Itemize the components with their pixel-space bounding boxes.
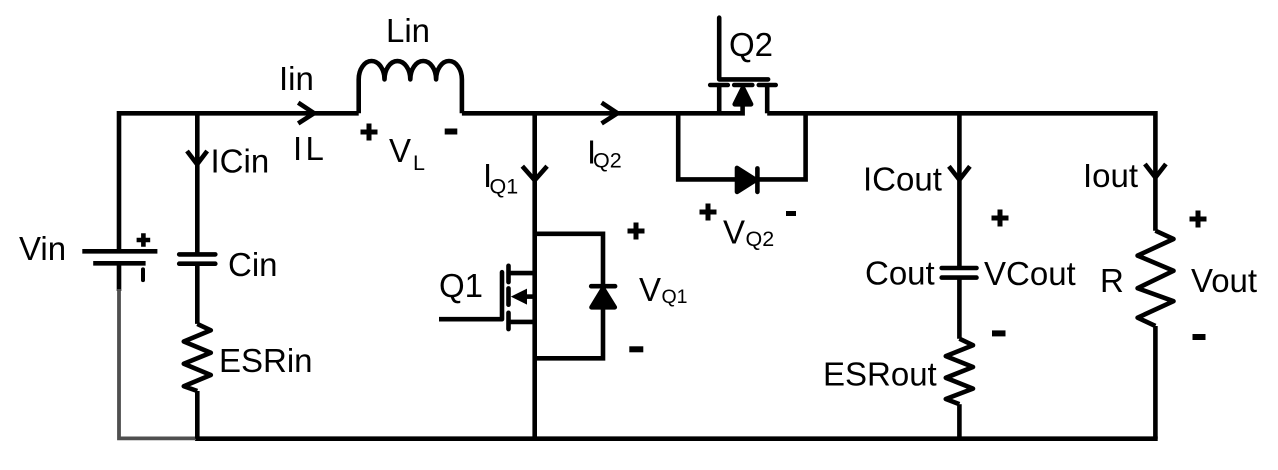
svg-text:Q2: Q2 [593, 149, 622, 173]
wire: battery negative lead [117, 263, 122, 291]
capacitor Cin plates [179, 254, 215, 263]
svg-text:ICout: ICout [863, 161, 942, 198]
plus mark VL [361, 124, 378, 141]
minus mark VCout [992, 330, 1006, 336]
wire: Q1 drain-source vertical [532, 113, 537, 438]
wire: Q1 body-diode loop [535, 234, 603, 358]
svg-text:R: R [1100, 262, 1124, 299]
transistor Q2 channel segments [710, 83, 776, 88]
svg-text:Vin: Vin [19, 230, 66, 267]
plus mark Vout [1190, 211, 1207, 228]
transistor Q1 drain stub [509, 271, 535, 276]
svg-text:Q2: Q2 [729, 26, 773, 63]
transistor Q2 source stub right [765, 85, 770, 113]
transistor Q2 drain stub left [717, 85, 722, 113]
wire: top rail left segment [119, 111, 359, 116]
wire: Q2 body-diode loop [678, 111, 805, 179]
plus mark VQ2 [700, 204, 717, 221]
wire: ESRout bottom lead [957, 404, 962, 439]
wire: Cin branch upper [195, 111, 200, 254]
svg-text:Q1: Q1 [439, 267, 483, 304]
wire: left vertical from top rail to battery [117, 111, 122, 251]
transistor Q1 gate lead [439, 317, 502, 322]
diode D2 (Q2 body) triangle [737, 168, 756, 192]
svg-text:I: I [293, 130, 302, 167]
svg-text:Iout: Iout [1083, 157, 1138, 194]
wire: top rail middle segment into Q2 source stem [462, 104, 743, 114]
transistor Q1 source stub [509, 320, 535, 325]
capacitor Cout plates [942, 268, 977, 278]
svg-text:Iin: Iin [279, 60, 314, 97]
wire: load bottom lead [1153, 326, 1158, 439]
wire: Cin to ESRin [195, 264, 200, 324]
Iin arrow [298, 103, 314, 124]
wire: ESRin bottom lead [195, 391, 200, 439]
ICin arrow [187, 151, 207, 164]
svg-text:Q1: Q1 [662, 286, 688, 308]
transistor Q1 body arrow [526, 294, 535, 299]
svg-text:Cin: Cin [228, 246, 278, 283]
inductor Lin [359, 61, 462, 113]
minus mark VQ1 [629, 346, 643, 352]
battery plus mark [137, 233, 151, 247]
svg-text:Cout: Cout [865, 255, 935, 292]
ICout arrow [949, 166, 970, 180]
svg-text:ESRin: ESRin [219, 342, 313, 379]
transistor Q2 gate lead and gate bar [719, 18, 768, 80]
svg-text:VCout: VCout [984, 255, 1076, 292]
resistor R (load) [1138, 231, 1174, 326]
battery Vin short plate [93, 261, 145, 266]
IQ1 arrow [522, 166, 547, 180]
svg-text:Q1: Q1 [490, 175, 519, 199]
svg-text:V: V [389, 132, 411, 169]
minus mark Vout [1193, 334, 1206, 340]
svg-text:Q2: Q2 [746, 227, 775, 251]
wire: Cout to ESRout [957, 278, 962, 339]
transistor Q1 gate bar [500, 272, 505, 319]
wire: Cout branch upper [957, 111, 962, 268]
svg-text:Lin: Lin [386, 12, 430, 49]
battery Vin long plate [82, 249, 157, 254]
resistor ESRout [946, 339, 973, 405]
svg-text:L: L [306, 130, 324, 167]
diode D2 (Q2 body) cathode bar [755, 168, 760, 192]
battery minus tick [141, 269, 145, 280]
svg-text:Vout: Vout [1191, 262, 1257, 299]
resistor ESRin [184, 324, 211, 391]
diode D1 (Q1 body) cathode bar [591, 284, 615, 289]
transistor Q1 channel segments [506, 266, 511, 329]
svg-text:ESRout: ESRout [823, 356, 937, 393]
wire: bottom rail [195, 436, 1158, 441]
IQ2 arrow [602, 103, 618, 124]
svg-text:V: V [723, 214, 745, 251]
minus mark VL [445, 129, 458, 135]
plus mark VCout [992, 210, 1009, 227]
Iout arrow [1145, 164, 1166, 178]
wire: top rail right segment [767, 111, 1155, 116]
diode D1 (Q1 body) triangle [592, 288, 615, 307]
plus mark VQ1 [628, 223, 645, 240]
transistor Q2 body arrow [735, 88, 751, 105]
svg-text:L: L [413, 151, 425, 175]
wire: right vertical down to load R [1153, 111, 1158, 231]
wire: grey return path [119, 289, 196, 438]
svg-text:V: V [639, 271, 661, 308]
minus mark VQ2 [786, 211, 796, 216]
svg-text:ICin: ICin [211, 143, 270, 180]
